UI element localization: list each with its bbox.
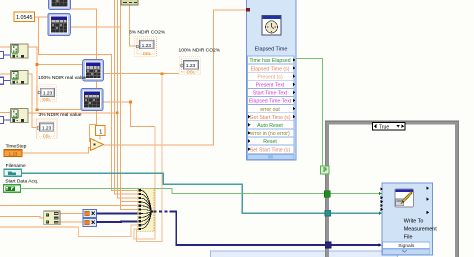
svg-text:1.0545: 1.0545: [16, 15, 33, 21]
DAQmx channel constant 3: [0, 117, 4, 124]
svg-text:1.23: 1.23: [9, 151, 18, 156]
multiply node: [91, 139, 104, 151]
svg-text:3% NDIR CO2%: 3% NDIR CO2%: [129, 29, 166, 35]
svg-text:Present (s): Present (s): [257, 74, 283, 80]
svg-text:DBL: DBL: [43, 134, 52, 139]
wire: dynamic data from convert 1 to merge input 7: [97, 212, 140, 214]
row error out: [248, 105, 295, 113]
wire: TimeStep to multiply node: [22, 148, 91, 154]
tunnel teal on case border: [325, 210, 331, 216]
wire: DAQ1 input orange: [0, 46, 11, 48]
svg-text:Write To: Write To: [404, 218, 424, 224]
svg-text:True: True: [379, 124, 389, 130]
wire: constant 1 down to multiply node: [99, 136, 101, 140]
wire: orange from multiply node to elapsed time input: [104, 10, 247, 145]
waveform chart terminal 1 (cut at top): [49, 0, 71, 10]
tunnel blue on case border: [325, 242, 331, 248]
wire: DAQ3 input orange: [0, 111, 11, 113]
row Elapsed Time (s): [248, 64, 295, 72]
wire: long left wire L3 wrap to merge input 10: [0, 226, 79, 228]
wire: subVI outputs to convert blocks: [60, 213, 83, 221]
WTMF Signals row: [383, 242, 430, 248]
case selector label True: [373, 123, 406, 131]
svg-text:3% NDIR real value: 3% NDIR real value: [39, 112, 82, 118]
DAQ read block 2: [11, 70, 29, 84]
numeric constant 1: [96, 125, 105, 135]
merge signals function: [138, 189, 154, 232]
control TimeStep: [4, 150, 22, 157]
block cut off at top edge: [121, 0, 138, 5]
svg-text:Elapsed Time (s): Elapsed Time (s): [251, 66, 290, 72]
WTMF input arrows: [381, 187, 384, 211]
svg-text:error in (no error): error in (no error): [250, 131, 290, 137]
convert to dynamic data 2: [83, 218, 97, 226]
svg-text:Present Text: Present Text: [256, 83, 285, 89]
wire: DAQ2 output down to 3% real value indicator: [28, 74, 37, 127]
DAQmx channel constant 2: [0, 77, 4, 84]
svg-text:100% NDIR CO2%: 100% NDIR CO2%: [179, 48, 221, 54]
svg-text:Signals: Signals: [398, 243, 415, 249]
op: Elapsed Time express VI body: [247, 0, 297, 160]
wire: green boolean Start Data Acq to tunnel and WTMF Comment: [21, 189, 381, 194]
Write To Measurement File express VI: [381, 183, 438, 255]
indicator 100% NDIR CO2%: [179, 57, 200, 75]
tunnel green on case border: [324, 191, 330, 198]
svg-text:Reset: Reset: [263, 139, 277, 145]
svg-text:Filename: Filename: [6, 163, 26, 169]
control Filename path: [4, 169, 22, 176]
elapsed time bottom expand bar: [248, 154, 295, 159]
WTMF bottom row: [383, 249, 430, 255]
elapsed time icon: [262, 16, 281, 36]
svg-text:File: File: [404, 235, 413, 241]
row Get Start Time (s): [248, 113, 295, 121]
junction dot DAQ3 output on bundle: [116, 112, 119, 115]
wire: violet to DAQ1: [4, 54, 11, 56]
wire: vertical bundle from top to merge inputs 2-4: [114, 0, 139, 202]
partially visible block at bottom edge: [211, 251, 398, 257]
svg-text:DBL: DBL: [143, 51, 152, 56]
wire: violet to DAQ2: [4, 80, 11, 82]
case structure border: [325, 121, 459, 257]
wire: DAQ1 output trunk down feeding chart3, 100% indicator, chart4: [28, 47, 83, 109]
svg-text:1.23: 1.23: [186, 63, 196, 69]
svg-text:Time has Elapsed: Time has Elapsed: [249, 58, 290, 64]
svg-text:Elapsed Time Text: Elapsed Time Text: [249, 99, 292, 105]
wire: long left wire L1 to merge input 5: [0, 204, 140, 206]
wire: constant 1.0545 to chart 2 and branch down east: [35, 17, 140, 191]
elapsed time VI input terminal dot: [246, 8, 250, 12]
svg-text:DBL: DBL: [187, 70, 196, 75]
svg-text:1.23: 1.23: [42, 125, 52, 131]
wire: dynamic data inside case to WTMF Signals: [332, 244, 380, 246]
waveform chart terminal 2: [48, 14, 71, 36]
wire: chart3 right to 100% CO2 indicator: [104, 73, 180, 75]
DAQ read block 3: [11, 109, 29, 123]
row Time has Elapsed: [248, 56, 295, 64]
wire: chart 2 right to merge input 6: [70, 27, 139, 210]
svg-text:Measurement: Measurement: [404, 226, 437, 232]
wire: teal Filename to case tunnel: [22, 173, 326, 213]
svg-text:Start Time Text: Start Time Text: [253, 91, 288, 97]
DAQ read block 1: [11, 44, 29, 58]
case selector terminal: [321, 166, 330, 174]
svg-text:Set Start Time (s): Set Start Time (s): [250, 147, 291, 153]
wire: long left wire L2 to subVI input: [0, 216, 44, 218]
wire: chart 1 down to constant 1: [71, 9, 97, 142]
WTMF icon: [395, 189, 414, 207]
DAQmx channel constant 1: [0, 52, 4, 59]
svg-text:1.23: 1.23: [142, 43, 152, 49]
wire: boolean Time has Elapsed to case selector: [296, 59, 325, 170]
indicator 3% NDIR CO2%: [135, 37, 157, 56]
svg-text:Auto Reset: Auto Reset: [257, 123, 283, 129]
convert to dynamic data 1: [83, 209, 97, 217]
svg-text:Start Data Acq.: Start Data Acq.: [5, 179, 38, 185]
wire: vertical from top to 3% CO2 indicator D input: [129, 0, 136, 46]
waveform chart terminal 4: [81, 89, 103, 111]
row Elapsed Time Text: [248, 97, 295, 105]
indicator 3% NDIR real value: [37, 119, 58, 139]
numeric constant 1.0545: [14, 12, 35, 22]
junction dot DAQ1 trunk lower: [36, 108, 39, 111]
svg-text:1.23: 1.23: [43, 91, 53, 97]
junction dot on chart4 wire: [129, 101, 132, 104]
svg-text:Get Start Time (s): Get Start Time (s): [250, 115, 291, 121]
row error in (no error): [248, 129, 295, 137]
wire: chart4 right staircase wrap to merge input 11: [103, 102, 155, 127]
wire: teal inside case to WTMF File Name input: [331, 212, 380, 214]
junction dot on chart3 wire at wrap branch: [161, 72, 164, 75]
wire: branch down wrap around merge to input 11: [137, 74, 163, 242]
subVI scaling block: [44, 211, 60, 225]
svg-text:1: 1: [99, 130, 102, 136]
indicator 100% NDIR real value: [36, 85, 56, 102]
elapsed time VI input arrows left edge: [248, 115, 251, 151]
elapsed time VI rows: [248, 56, 295, 159]
row Present (s): [248, 72, 295, 80]
wire: dynamic data from convert 2 to merge input 9: [97, 221, 140, 224]
elapsed time VI output arrows right edge: [293, 58, 296, 118]
row Start Time Text: [248, 88, 295, 96]
row Present Text: [248, 80, 295, 88]
svg-text:error out: error out: [260, 107, 280, 113]
control Start Data Acq boolean: [4, 185, 21, 193]
wire: dynamic data merge output dashed then down to tunnel: [154, 211, 326, 245]
WTMF output arrows: [427, 187, 430, 215]
wire: violet to DAQ3: [4, 119, 11, 121]
wire: DAQ2 input orange: [0, 73, 11, 75]
svg-text:TimeStep: TimeStep: [6, 144, 27, 150]
row Auto Reset: [248, 121, 295, 129]
junction dot DAQ1 trunk upper: [36, 63, 39, 66]
svg-text:100% NDIR real value: 100% NDIR real value: [38, 75, 87, 81]
wire: DAQ3 output to bundle junction: [28, 112, 117, 114]
svg-text:Elapsed Time: Elapsed Time: [255, 47, 288, 53]
waveform chart terminal 3: [83, 60, 104, 81]
row Set Start Time (s): [248, 145, 295, 153]
row Reset: [248, 137, 295, 145]
svg-text:DBL: DBL: [43, 97, 52, 102]
